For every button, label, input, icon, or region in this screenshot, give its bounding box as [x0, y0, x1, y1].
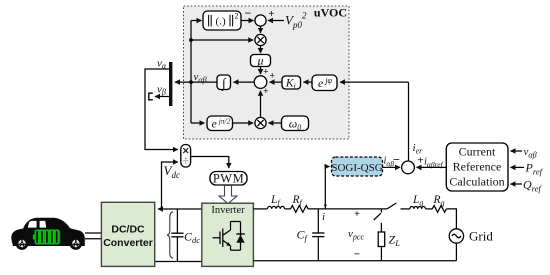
wire: SOGI-QSG to sum3 (minus) — [383, 153, 401, 168]
wire: divider to PWM — [191, 157, 229, 169]
wire: Lf to Rf — [285, 208, 291, 210]
wire: inverter AC output — [253, 208, 267, 210]
wire: v_beta output arrow with connector — [149, 93, 169, 100]
wire: DC-link bottom rail — [156, 261, 202, 263]
node J2 on bus — [189, 80, 193, 84]
wires: car to DC/DC converter — [85, 233, 101, 239]
wire: ier up to e^jphi feedback — [408, 82, 410, 161]
wire: e^jphi to Ki — [304, 81, 313, 83]
summer S3 — [402, 161, 415, 174]
wire: Lg to Rg — [426, 208, 433, 210]
car front wheel — [16, 237, 29, 250]
wire: Qref input — [511, 178, 543, 194]
current sense label i — [322, 167, 327, 224]
grid AC source — [449, 229, 493, 244]
summer S1 — [255, 15, 266, 26]
capacitor Cf — [297, 209, 325, 261]
resistor Rg — [432, 194, 446, 212]
svg-text:Calculation: Calculation — [449, 175, 504, 189]
gain block Ki — [282, 76, 301, 91]
node J1 on bus — [189, 38, 193, 42]
svg-text:Current: Current — [459, 145, 496, 159]
svg-text:i: i — [322, 211, 325, 223]
multiplier M1 — [255, 34, 266, 45]
alpha-beta bar node — [169, 62, 172, 106]
wire: integrator to alpha-beta bar — [175, 81, 217, 83]
wire: Pref input — [511, 161, 544, 177]
wire: Rf to pcc node — [308, 208, 387, 210]
svg-text:+: + — [263, 68, 268, 78]
svg-text:Grid: Grid — [469, 229, 493, 244]
IGBT Q1 — [213, 222, 231, 251]
wire: main vertical feedback bus x=191 — [190, 21, 192, 124]
svg-text:+: + — [268, 8, 274, 20]
svg-text:−: − — [354, 249, 360, 261]
DC-link brace — [167, 212, 173, 258]
wire: DC-link top rail (arrow into DC/DC) — [158, 208, 202, 210]
wire: e^jpi/2 to mult2 — [233, 122, 254, 124]
svg-text:SOGI-QSG: SOGI-QSG — [331, 162, 382, 174]
wire: mult2 to sum2 (plus) — [261, 87, 269, 117]
wire: mult1 to mu — [260, 46, 262, 53]
svg-text:Inverter: Inverter — [211, 205, 245, 216]
svg-text:μ: μ — [256, 54, 263, 68]
wire: Vdc sense line into divider — [162, 162, 178, 209]
car rear wheel — [69, 237, 82, 250]
svg-text:+: + — [269, 72, 274, 82]
EV car body — [11, 218, 84, 246]
inductor Lg — [410, 194, 426, 209]
wire: v_alpha from bar down to divider — [145, 69, 178, 150]
current reference calculation block — [446, 143, 508, 191]
summer S2 — [254, 76, 267, 89]
svg-text:+: + — [354, 209, 360, 220]
wire: Vp0^2 into sum1 (plus) — [268, 8, 284, 21]
wire: mu to sum2 (plus) — [261, 67, 269, 78]
wire: Rg to grid — [446, 209, 456, 229]
inductor Lf — [267, 194, 284, 209]
wire: sum2 to integrator — [234, 81, 255, 83]
svg-text:2: 2 — [235, 12, 239, 21]
resistor Rf — [291, 194, 309, 212]
svg-text:−: − — [393, 153, 400, 167]
multiplier M2 — [255, 117, 266, 128]
norm-square block — [203, 11, 241, 30]
wire: Ki to sum2 (plus) — [269, 72, 282, 82]
DC/DC converter block — [101, 202, 154, 266]
svg-text:−: − — [245, 6, 252, 20]
svg-text:PWM: PWM — [213, 172, 244, 186]
svg-text:(.): (.) — [216, 16, 226, 28]
SOGI-QSG block — [331, 157, 382, 176]
wire: ier feedback into e^jphi — [340, 81, 409, 83]
svg-text:+: + — [263, 87, 268, 97]
PWM block — [210, 172, 247, 186]
divider block (x over Vdc) — [181, 145, 191, 168]
inverter block — [202, 203, 254, 266]
wire: norm to sum1 (minus) — [242, 6, 254, 21]
uVOC dashed container box — [184, 6, 350, 140]
label +/- vpcc — [348, 209, 364, 261]
load impedance ZL — [378, 232, 400, 261]
svg-text:+: + — [417, 155, 423, 167]
hollow gate arrow PWM to inverter — [219, 186, 237, 204]
switch SW2 (load branch) — [374, 209, 382, 232]
wire: omega0 to mult2 — [269, 122, 282, 124]
wire: AC bottom rail — [253, 260, 456, 262]
svg-text:Converter: Converter — [103, 237, 153, 249]
svg-text:uVOC: uVOC — [314, 6, 347, 20]
wire: sense to SOGI-QSG — [325, 166, 329, 168]
gain block mu — [251, 54, 271, 68]
rotation block e^jphi — [312, 75, 337, 91]
wire: sum1 to mult1 — [260, 26, 262, 33]
integrator block — [217, 75, 231, 92]
quadrature block e^jpi/2 — [207, 116, 233, 131]
wire: bus to e^jpi/2 — [191, 122, 205, 124]
switch SW1 (series grid switch) — [387, 203, 410, 209]
freewheeling diode D1 — [231, 222, 245, 251]
wire: grid to bottom rail — [455, 243, 457, 261]
wire: v_alphabeta input — [511, 146, 537, 160]
capacitor Cdc — [171, 209, 200, 262]
svg-text:DC/DC: DC/DC — [111, 223, 145, 235]
wire: into norm block — [191, 20, 202, 22]
EV battery icon — [33, 230, 60, 245]
block omega0 — [282, 116, 309, 132]
wire: iref into sum3 (plus) — [417, 155, 447, 168]
wire: bus to mult1 — [191, 39, 253, 41]
svg-text:Reference: Reference — [453, 160, 502, 174]
